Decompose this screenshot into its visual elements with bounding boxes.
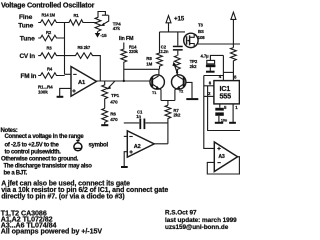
svg-text:symbol: symbol xyxy=(89,143,109,149)
svg-text:A3: A3 xyxy=(218,154,225,160)
wire A3 output xyxy=(238,156,240,158)
svg-text:470: 470 xyxy=(110,117,118,122)
op-amp A3 xyxy=(214,142,237,172)
svg-text:100k: 100k xyxy=(38,90,48,95)
power +15 right xyxy=(231,12,236,19)
wire summing bus xyxy=(64,23,66,75)
svg-text:1n: 1n xyxy=(136,114,141,119)
transistor T1 xyxy=(150,75,164,89)
svg-text:2k2: 2k2 xyxy=(190,64,198,69)
svg-text:2.2n: 2.2n xyxy=(160,49,169,54)
svg-text:T3: T3 xyxy=(198,23,204,28)
svg-text:Otherwise connect to ground.: Otherwise connect to ground. xyxy=(1,156,79,162)
capacitor 10n xyxy=(219,104,221,108)
resistor R14 1M xyxy=(38,20,64,26)
wire vertical B pin6 to right edge xyxy=(208,86,240,131)
wire A3 inverting feedback xyxy=(207,162,240,174)
trimmer TP4 hook wire xyxy=(98,12,108,18)
wire A1 non-inverting input xyxy=(60,88,71,96)
resistor R1 xyxy=(65,20,98,26)
op-amp A1 xyxy=(71,67,97,97)
power +15 left xyxy=(160,31,186,33)
svg-text:220k: 220k xyxy=(129,49,139,54)
svg-text:R5 2k7: R5 2k7 xyxy=(78,45,91,50)
ground at A2 + xyxy=(121,166,128,168)
svg-text:R4: R4 xyxy=(47,67,53,72)
svg-text:BS: BS xyxy=(198,29,204,34)
ground under 4.7u xyxy=(206,71,215,73)
pulsewidth terminal symbol in notes xyxy=(74,140,82,150)
resistor R7 xyxy=(165,105,171,144)
trimmer TP4 wiper xyxy=(103,15,109,24)
wire A1 output to T1 base xyxy=(97,80,151,82)
svg-text:4.7µ: 4.7µ xyxy=(201,54,210,59)
wire pin1 to ground xyxy=(232,104,234,122)
svg-text:last update: march 1999: last update: march 1999 xyxy=(165,217,237,224)
svg-text:be a BJT.: be a BJT. xyxy=(4,170,28,176)
svg-text:uzs159@uni-bonn.de: uzs159@uni-bonn.de xyxy=(165,224,229,231)
svg-text:of -2.5 to +2.5V to the: of -2.5 to +2.5V to the xyxy=(5,143,60,149)
resistor R6 xyxy=(102,108,108,125)
resistor R9 xyxy=(231,48,237,81)
svg-text:470: 470 xyxy=(110,99,118,104)
ground at A1 + xyxy=(57,96,64,98)
svg-text:directly to pin #7. (or via a: directly to pin #7. (or via a diode to #… xyxy=(1,194,124,201)
junction dot TP2 bottom xyxy=(176,71,178,73)
svg-text:Voltage Controlled Oscillator: Voltage Controlled Oscillator xyxy=(1,1,95,10)
svg-text:Tune: Tune xyxy=(20,36,35,43)
svg-text:R6: R6 xyxy=(110,112,116,117)
svg-text:lin FM: lin FM xyxy=(119,36,134,42)
svg-text:Connect a voltage in the range: Connect a voltage in the range xyxy=(5,134,85,140)
notes text block xyxy=(1,128,109,177)
transistor T2 xyxy=(172,75,186,89)
wire pin2 stub xyxy=(204,95,214,97)
resistor R5 xyxy=(65,53,101,81)
ground under 10n xyxy=(215,122,223,124)
trimmer TP1 wiper xyxy=(109,81,115,88)
svg-text:+15: +15 xyxy=(174,15,185,22)
resistor R8 xyxy=(157,32,163,69)
svg-text:All opamps powered by +/-15V: All opamps powered by +/-15V xyxy=(1,228,103,236)
trimmer TP1 xyxy=(102,81,108,108)
svg-text:A1: A1 xyxy=(78,80,86,86)
op-amp A2 xyxy=(124,135,128,137)
wire pins4-8 top line xyxy=(204,75,224,77)
svg-text:2k2: 2k2 xyxy=(173,113,181,118)
resistor R2 xyxy=(38,35,64,41)
svg-text:Fine: Fine xyxy=(19,14,33,21)
svg-text:FM in: FM in xyxy=(21,73,37,80)
svg-text:CV in: CV in xyxy=(20,53,36,60)
svg-text:Notes:: Notes: xyxy=(1,128,18,134)
wire A1 inverting input xyxy=(65,73,72,75)
wire A2 + to ground xyxy=(124,152,127,167)
svg-text:R3: R3 xyxy=(47,46,53,51)
wire pin4 vertical xyxy=(222,55,224,80)
capacitor 4.7u xyxy=(210,55,223,60)
transistor T3 xyxy=(184,33,198,47)
svg-text:R2: R2 xyxy=(46,30,52,35)
svg-text:R1: R1 xyxy=(74,13,80,18)
capacitor C1 xyxy=(139,119,141,130)
svg-text:Tune: Tune xyxy=(18,22,33,29)
ground under pin1 xyxy=(229,122,236,124)
ground under T2 base xyxy=(186,98,198,100)
svg-text:555: 555 xyxy=(220,91,232,100)
svg-text:The discharge transistor may a: The discharge transistor may also xyxy=(4,164,93,170)
svg-text:to control pulsewidth.: to control pulsewidth. xyxy=(5,150,62,156)
power -15 under TP4 xyxy=(97,32,99,33)
junction dot base line xyxy=(123,80,125,82)
resistor R4 xyxy=(38,73,64,79)
wire T1 collector line xyxy=(124,68,160,70)
ground under R6 xyxy=(101,124,108,126)
wire A2 feedback line xyxy=(124,122,168,124)
resistor R14 220k xyxy=(121,43,127,81)
svg-text:108: 108 xyxy=(198,35,206,40)
svg-text:1M: 1M xyxy=(146,61,152,66)
svg-text:R14 1M: R14 1M xyxy=(42,13,56,18)
wire pin6 stub xyxy=(204,85,214,87)
svg-text:TP1: TP1 xyxy=(111,93,120,98)
wire common emitters xyxy=(161,101,175,106)
trimmer TP4 body xyxy=(95,17,101,31)
capacitor C2 xyxy=(177,32,179,46)
IC1 555 box xyxy=(214,81,240,104)
svg-text:A2: A2 xyxy=(134,144,141,150)
credits text block xyxy=(165,209,237,231)
wire 555 timing node vertical A xyxy=(204,76,215,149)
svg-text:R.S.Oct 97: R.S.Oct 97 xyxy=(165,209,197,216)
wire T2 base to ground xyxy=(186,82,192,98)
svg-text:47k: 47k xyxy=(113,26,121,31)
resistor R3 xyxy=(38,53,64,59)
wire A2 output xyxy=(154,143,168,145)
wire pins 4-8 tie xyxy=(223,71,233,73)
trimmer TP2 xyxy=(174,56,180,76)
parts list text block xyxy=(1,210,103,236)
svg-text:R8: R8 xyxy=(146,56,152,61)
svg-text:-15: -15 xyxy=(100,33,107,38)
trimmer TP2 wiper xyxy=(174,65,177,72)
wire right rail to T3 xyxy=(198,43,240,45)
